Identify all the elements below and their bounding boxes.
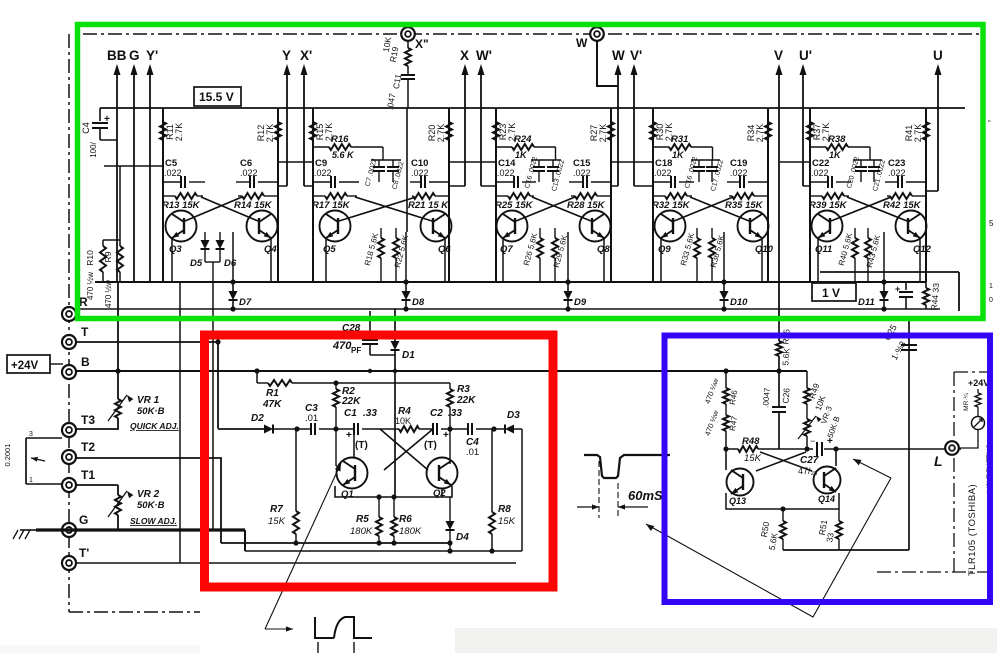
capacitor C19 .022 — [727, 181, 740, 183]
svg-text:X: X — [460, 48, 469, 63]
wire cross-coupling — [532, 197, 591, 221]
svg-text:BB: BB — [107, 48, 127, 63]
wire stage1 drop lines — [179, 282, 181, 563]
svg-text:+: + — [104, 114, 110, 125]
svg-text:50K·B: 50K·B — [137, 406, 165, 417]
resistor R3 22K — [449, 383, 451, 389]
potentiometer VR1 50K-B — [115, 399, 121, 418]
capacitor C25 — [901, 345, 917, 350]
wire stage bottom rail — [95, 281, 926, 283]
svg-text:D9: D9 — [574, 297, 587, 308]
resistor R42 15K — [887, 195, 890, 197]
svg-text:180K: 180K — [399, 526, 422, 537]
wire T-prime bus — [75, 562, 516, 564]
svg-text:Q5: Q5 — [323, 244, 336, 255]
resistor R18 5.6K — [380, 228, 382, 238]
potentiometer 0.200 — [25, 438, 27, 484]
capacitor C13 .0022 — [552, 160, 554, 166]
wire W terminal to W arrow — [597, 40, 618, 86]
svg-text:15K: 15K — [268, 516, 286, 527]
svg-text:50K·B: 50K·B — [137, 500, 165, 511]
scan shading — [455, 628, 997, 653]
resistor R24 1K — [496, 146, 512, 148]
wire Q13/Q14 base row — [760, 448, 813, 450]
diode D2 — [264, 425, 273, 434]
wire Q13 collector — [725, 449, 727, 470]
svg-text:R8: R8 — [498, 504, 511, 515]
output arrow BB — [116, 67, 118, 282]
transistor Q2 — [427, 458, 458, 489]
svg-text:W': W' — [476, 48, 492, 63]
svg-text:5.6 K: 5.6 K — [332, 150, 355, 160]
svg-text:Q12: Q12 — [913, 244, 932, 255]
output arrow U — [937, 67, 939, 191]
svg-text:R42 15K: R42 15K — [883, 200, 922, 211]
diode D1 — [394, 309, 396, 341]
svg-text:R: R — [79, 295, 88, 309]
svg-text:R6: R6 — [399, 514, 412, 525]
svg-text:+24V: +24V — [968, 378, 989, 388]
svg-text:T3: T3 — [81, 413, 95, 427]
resistor R32 15K — [653, 195, 665, 197]
svg-text:0.2001: 0.2001 — [3, 444, 12, 467]
svg-text:PF: PF — [351, 346, 361, 355]
resistor R14 15K — [238, 195, 242, 197]
transistor Q4 — [247, 211, 278, 242]
wire emitters — [171, 238, 173, 282]
wire stage border right (Q12) — [925, 108, 927, 282]
svg-text:.022: .022 — [314, 168, 332, 178]
resistor R45 5.6K — [778, 316, 780, 341]
terminal T' — [62, 556, 76, 570]
capacitor C10 .022 — [410, 181, 421, 183]
wire D8 column — [405, 232, 407, 282]
wire emitter box — [335, 486, 452, 497]
transistor Q13 — [727, 469, 754, 496]
capacitor C20 .0022 — [860, 160, 862, 166]
blue annotation box — [665, 336, 991, 603]
diode D8 — [405, 282, 407, 291]
svg-text:180K: 180K — [350, 526, 373, 537]
wire stage border left (Q3) — [162, 108, 164, 282]
resistor R26 5.6K — [539, 228, 541, 238]
wire G bus — [36, 528, 245, 531]
svg-text:“: “ — [988, 119, 991, 128]
diode D3 — [505, 425, 514, 434]
wire D3 drop — [521, 429, 523, 551]
svg-text:Q3: Q3 — [169, 244, 182, 255]
svg-text:C4: C4 — [81, 122, 91, 134]
wire D9 column — [567, 232, 569, 282]
transistor Q12 — [896, 211, 927, 242]
resistor R6 180K — [393, 497, 395, 517]
wire Q1 collector — [335, 429, 337, 466]
resistor R12 2.7K — [275, 122, 281, 140]
svg-text:R7: R7 — [270, 504, 283, 515]
svg-text:W: W — [612, 48, 625, 63]
svg-text:100/: 100/ — [89, 141, 98, 157]
resistor R15 2.7K — [310, 122, 316, 140]
wire astable rail A — [221, 542, 450, 544]
wire blue B-bus node — [723, 368, 728, 373]
resistor R4 10K — [399, 426, 419, 432]
terminal T3 — [62, 423, 76, 437]
svg-text:1 V: 1 V — [822, 286, 840, 300]
svg-text:.022: .022 — [411, 168, 429, 178]
resistor R10 470 1/2W — [102, 240, 104, 246]
svg-text:Q1: Q1 — [341, 489, 354, 500]
resistor R29 5.6K — [554, 228, 556, 238]
svg-text:Q10: Q10 — [755, 244, 774, 255]
svg-text:R31: R31 — [671, 134, 688, 145]
lamp LED — [977, 407, 979, 416]
wire T1 bus — [75, 484, 118, 486]
terminal G — [62, 523, 76, 537]
resistor R39 15K — [810, 195, 822, 197]
diode D5 — [204, 232, 206, 240]
svg-text:R14 15K: R14 15K — [234, 200, 273, 211]
capacitor C3 .01 — [311, 423, 315, 435]
wire stage border left (Q7) — [495, 108, 497, 282]
capacitor C11 .047 — [407, 66, 409, 74]
potentiometer VR2 50K-B — [115, 495, 121, 515]
svg-text:D8: D8 — [412, 297, 425, 308]
svg-text:T1: T1 — [81, 468, 95, 482]
capacitor C5 .022 — [163, 181, 181, 183]
resistor R30 2.7K — [650, 122, 656, 140]
svg-text:5.6K: 5.6K — [780, 347, 792, 366]
resistor R20 2.7K — [446, 122, 452, 140]
svg-text:VR 2: VR 2 — [137, 489, 160, 500]
capacitor C23 .022 — [885, 181, 898, 183]
terminal R — [62, 307, 76, 321]
resistor R23 2.7K — [493, 122, 499, 140]
svg-text:15K: 15K — [498, 516, 516, 527]
transistor Q7 — [497, 211, 528, 242]
svg-text:G: G — [129, 48, 140, 63]
svg-text:R39 15K: R39 15K — [809, 200, 848, 211]
capacitor C14 .022 — [496, 181, 514, 183]
svg-text:Q9: Q9 — [658, 244, 671, 255]
capacitor C17 .0022 — [711, 160, 713, 166]
resistor R22 5.6K — [395, 228, 397, 238]
wire stage border left (Q11) — [809, 108, 811, 282]
capacitor C8 .0022 — [392, 160, 394, 166]
terminal X" input — [401, 27, 415, 41]
capacitor C21 .0022 — [873, 160, 875, 166]
svg-text:.01: .01 — [305, 413, 318, 424]
svg-text:60mS: 60mS — [628, 488, 663, 503]
annotation V arrows — [646, 478, 891, 617]
wire R bus — [69, 308, 940, 310]
transistor Q9 — [655, 211, 686, 242]
terminal T2 — [62, 450, 76, 464]
wire mid caps — [531, 159, 561, 161]
svg-text:R28 15K: R28 15K — [567, 200, 606, 211]
capacitor C4 .01 — [468, 423, 472, 435]
resistor R9 470 1/2W — [119, 240, 121, 246]
green annotation box — [78, 25, 984, 319]
svg-text:1K: 1K — [829, 150, 842, 160]
wire astable input row — [217, 428, 219, 429]
svg-text:G: G — [79, 513, 88, 527]
wire BB column — [117, 282, 119, 399]
wire D10 column — [723, 232, 725, 282]
svg-text:C27: C27 — [800, 455, 819, 466]
svg-text:R48: R48 — [742, 436, 760, 447]
svg-text:R9: R9 — [103, 251, 113, 262]
output arrow V' — [633, 67, 635, 186]
svg-text:.0047: .0047 — [761, 387, 772, 408]
waveform 60mS — [584, 455, 670, 478]
label 15.5V supply — [194, 87, 241, 106]
terminal W input — [590, 27, 604, 41]
resistor lamp feed — [977, 389, 979, 393]
wire 15.5V rail — [100, 107, 965, 109]
svg-text:V': V' — [630, 48, 642, 63]
wire Q14 collector — [835, 449, 837, 466]
wire X-quote column — [406, 108, 408, 232]
resistor R7 15K — [295, 429, 297, 511]
resistor R38 1K — [810, 146, 826, 148]
svg-text:D5: D5 — [190, 258, 203, 269]
resistor R5 180K — [378, 497, 380, 517]
svg-text:D2: D2 — [251, 413, 264, 424]
svg-text:L: L — [934, 453, 943, 469]
svg-text:47K: 47K — [262, 399, 282, 410]
svg-text:VR 1: VR 1 — [137, 395, 160, 406]
resistor R27 2.7K — [608, 122, 614, 140]
wire emitters — [325, 238, 327, 282]
transistor Q5 — [320, 211, 351, 242]
svg-text:.01: .01 — [466, 447, 479, 458]
capacitor C27 47/25 — [817, 442, 822, 456]
wire D7 column — [232, 232, 234, 282]
svg-text:.33: .33 — [448, 408, 462, 419]
svg-text:D1: D1 — [402, 350, 415, 361]
wire T bus — [75, 341, 218, 343]
capacitor C22 .022 — [810, 181, 828, 183]
diode D6 — [219, 232, 221, 240]
svg-text:R32 15K: R32 15K — [652, 200, 691, 211]
capacitor C26 .0047 — [778, 371, 780, 406]
svg-text:D7: D7 — [239, 297, 252, 308]
svg-text:2.7K: 2.7K — [174, 123, 184, 142]
resistor R43 5.6K — [867, 228, 869, 238]
resistor R51 33 — [838, 509, 840, 521]
wire stage border left (Q9) — [652, 108, 654, 282]
svg-text:−: − — [810, 436, 815, 446]
resistor R50 5.6K — [782, 509, 784, 521]
wire interstage links — [278, 161, 313, 163]
svg-text:U: U — [933, 48, 943, 63]
output arrow G — [133, 67, 135, 282]
svg-text:C26: C26 — [780, 387, 791, 404]
wire stage border right (Q4) — [277, 108, 279, 282]
resistor R49 10K — [806, 371, 808, 388]
resistor R36 5.6K — [711, 228, 713, 238]
svg-text:Q14: Q14 — [818, 494, 835, 504]
svg-text:Q7: Q7 — [500, 244, 513, 255]
svg-text:T2: T2 — [81, 440, 95, 454]
svg-text:15.5 V: 15.5 V — [199, 90, 234, 104]
wire blue emitter rail — [726, 493, 839, 509]
svg-text:1: 1 — [989, 283, 993, 290]
svg-text:QUICK ADJ.: QUICK ADJ. — [130, 421, 179, 431]
wire D11 column — [883, 232, 885, 282]
svg-text:15K: 15K — [744, 453, 762, 464]
svg-text:X": X" — [415, 37, 429, 51]
svg-text:R17 15K: R17 15K — [312, 200, 351, 211]
resistor R19 10K — [407, 40, 409, 48]
output arrow Y' — [149, 67, 151, 282]
wire emitters — [660, 238, 662, 282]
capacitor C4 100uF — [99, 108, 101, 121]
svg-text:T': T' — [79, 546, 89, 560]
resistor R11 2.7K — [160, 122, 166, 140]
svg-text:Y: Y — [282, 48, 291, 63]
svg-text:3: 3 — [29, 431, 33, 438]
wire mid caps — [691, 159, 720, 161]
resistor R41 2.7K — [923, 122, 929, 140]
label 1V — [812, 283, 856, 301]
svg-text:22K: 22K — [456, 395, 476, 406]
terminal B — [62, 365, 76, 379]
capacitor C18 .022 — [653, 181, 671, 183]
wire arrow stubs — [278, 185, 287, 187]
svg-text:10K: 10K — [395, 416, 411, 426]
wire blue cross-coupling — [760, 452, 812, 471]
capacitor C24 — [905, 282, 907, 290]
resistor R31 1K — [653, 146, 669, 148]
resistor R48 15K — [726, 448, 738, 450]
resistor R34 2.7K — [765, 122, 771, 140]
svg-text:R25 15K: R25 15K — [495, 200, 534, 211]
terminal L — [945, 441, 959, 455]
transistor Q14 — [814, 467, 841, 494]
wire blue bottom rail — [783, 549, 909, 551]
transistor Q10 — [738, 211, 769, 242]
svg-text:R38: R38 — [828, 134, 846, 145]
wire stage border left (Q5) — [312, 108, 314, 282]
svg-text:22K: 22K — [341, 396, 361, 407]
svg-text:R3: R3 — [457, 384, 470, 395]
svg-text:+: + — [895, 284, 900, 294]
resistor R37 2.7K — [807, 122, 813, 140]
svg-text:2.7K: 2.7K — [598, 124, 608, 143]
annotation arrow to Q1 — [265, 463, 341, 629]
wire astable cross-coupling — [380, 429, 428, 470]
wire stage border right (Q10) — [767, 108, 769, 282]
wire T2 bus — [75, 458, 221, 543]
svg-text:B: B — [81, 355, 90, 369]
resistor R21 15 K — [412, 195, 413, 197]
svg-text:.022: .022 — [497, 168, 515, 178]
resistor R46 470 — [725, 371, 727, 388]
svg-text:D10: D10 — [730, 297, 748, 308]
svg-text:MR·¼: MR·¼ — [963, 393, 970, 411]
svg-text:R1: R1 — [266, 388, 279, 399]
diode D9 — [567, 282, 569, 291]
wire emitters — [817, 238, 819, 282]
svg-text:1K: 1K — [515, 150, 528, 160]
svg-text:C2: C2 — [430, 408, 443, 419]
resistor R1 47K — [254, 368, 259, 373]
output arrow X — [464, 67, 466, 186]
capacitor C7 .0022 — [378, 160, 380, 166]
wire T3 bus — [75, 428, 119, 430]
resistor R13 15K — [163, 195, 175, 197]
label +24V — [7, 355, 50, 373]
diode D4 — [449, 497, 451, 521]
resistor R25 15K — [496, 195, 508, 197]
resistor R40 5.6K — [854, 228, 856, 238]
svg-text:R10: R10 — [85, 250, 95, 266]
output arrow Y — [286, 67, 288, 186]
capacitor C16 .0022 — [538, 160, 540, 166]
svg-text:R13 15K: R13 15K — [162, 200, 201, 211]
wire emitters — [502, 238, 504, 282]
svg-text:1K: 1K — [672, 150, 685, 160]
svg-text:R5: R5 — [356, 514, 369, 525]
svg-text:D3: D3 — [507, 410, 520, 421]
bottom pulse waveform — [315, 617, 334, 638]
svg-text:.022: .022 — [240, 168, 258, 178]
svg-text:(T): (T) — [355, 440, 368, 451]
svg-text:+: + — [346, 430, 352, 441]
svg-text:D6: D6 — [224, 258, 237, 269]
wire astable rail B — [245, 550, 522, 552]
wire cross-coupling — [690, 197, 749, 221]
svg-text:Y': Y' — [146, 48, 158, 63]
wire blue right riser — [908, 316, 910, 550]
resistor R17 15K — [313, 195, 325, 197]
terminal T1 — [62, 478, 76, 492]
svg-text:2.7K: 2.7K — [755, 124, 765, 143]
svg-text:.022: .022 — [654, 168, 672, 178]
output arrow W — [617, 67, 619, 186]
diode D7 — [232, 282, 234, 291]
svg-text:SLOW ADJ.: SLOW ADJ. — [130, 516, 177, 526]
resistor R47 470 — [725, 404, 727, 415]
svg-text:470: 470 — [332, 340, 352, 352]
right column dash-dot box — [953, 372, 955, 440]
wire mid caps — [853, 159, 882, 161]
svg-text:T: T — [81, 325, 89, 339]
potentiometer VR3 50K-B — [806, 404, 808, 419]
wire U link — [926, 190, 938, 192]
svg-text:2.7K: 2.7K — [913, 124, 923, 143]
svg-text:U': U' — [799, 48, 812, 63]
svg-text:Q13: Q13 — [729, 496, 746, 506]
wire cross-coupling — [201, 197, 258, 221]
svg-text:1: 1 — [29, 477, 33, 484]
svg-text:R24: R24 — [514, 134, 532, 145]
resistor R28 15K — [571, 195, 575, 197]
transistor Q6 — [421, 211, 452, 242]
red annotation box — [205, 335, 554, 587]
svg-text:33: 33 — [824, 532, 836, 543]
wire 1V rail — [820, 271, 959, 273]
svg-text:TLR105 (TOSHIBA): TLR105 (TOSHIBA) — [967, 484, 978, 576]
svg-text:C1: C1 — [344, 408, 357, 419]
resistor R16 5.6 K — [313, 146, 329, 148]
svg-text:R35 15K: R35 15K — [725, 200, 764, 211]
resistor R8 15K — [491, 429, 493, 512]
capacitor C28 470pF — [369, 311, 371, 338]
transistor Q3 — [166, 211, 197, 242]
diode D11 — [883, 282, 885, 291]
